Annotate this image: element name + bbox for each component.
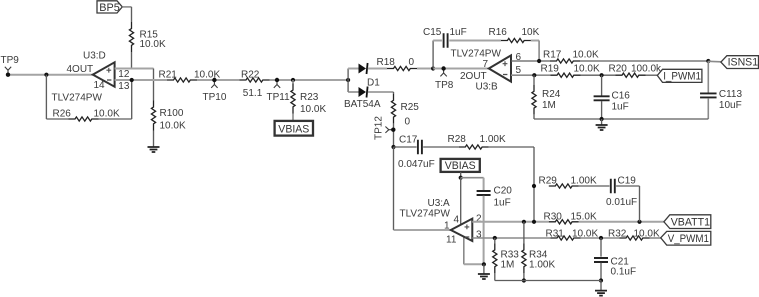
wire bus stub to ground (601, 119, 603, 125)
capacitor C113 10uF (700, 93, 717, 97)
test point TP9 (5, 67, 11, 77)
svg-text:0: 0 (405, 117, 411, 128)
svg-text:VBATT1: VBATT1 (671, 217, 710, 229)
svg-text:100.0k: 100.0k (631, 64, 662, 75)
wire corner down to R25 (393, 92, 395, 94)
svg-text:R17: R17 (543, 49, 562, 60)
svg-text:4OUT: 4OUT (67, 64, 94, 75)
resistor R17 10.0K (550, 59, 580, 63)
wire R34 to bottom bus (523, 273, 525, 280)
svg-text:R22: R22 (241, 70, 260, 81)
wire R24 to ground bus (533, 115, 535, 119)
junction R33 tap (493, 236, 497, 240)
op-amp U3:B (489, 55, 511, 81)
resistor R34 1.00K (522, 243, 526, 273)
wire C15 to R16 (449, 40, 501, 42)
resistor R15 10.0K (129, 22, 133, 52)
svg-text:R30: R30 (544, 211, 563, 222)
wire C16 tap down (601, 75, 603, 95)
wire R17 to ISNS1 (580, 60, 708, 62)
wire BP5 flag to corner (122, 6, 131, 8)
node feedback tap at U3:D output (44, 73, 48, 77)
ground below R100 (148, 147, 160, 152)
wire C21 tap down (600, 238, 602, 257)
junction pin 13 node (130, 78, 134, 82)
wire feedback down (45, 75, 47, 119)
svg-text:R20: R20 (609, 64, 628, 75)
svg-text:R31: R31 (546, 229, 565, 240)
wire R21 to R22 (197, 79, 240, 81)
junction C16 tap (600, 73, 604, 77)
wire R33 tap down (494, 238, 496, 243)
resistor R29 1.00K (549, 184, 579, 188)
junction VBIAS node (459, 176, 463, 180)
wire output to U3:A tip (394, 229, 451, 231)
wire output node up to C15 (432, 41, 434, 69)
resistor R100 10.0K (151, 101, 155, 131)
svg-text:10K: 10K (522, 27, 540, 38)
net flag ISNS1 (721, 56, 759, 69)
wire BP5 corner down to R15 (131, 7, 133, 22)
svg-text:C20: C20 (494, 186, 513, 197)
test point TP8 (440, 66, 446, 76)
wire R18 to U3:B output node (417, 68, 433, 70)
ground below U3:A (478, 274, 490, 279)
wire R20 to I_PWM1 flag (646, 74, 658, 76)
wire pin 12 down to R100 (153, 69, 155, 101)
junction C21 tap (599, 236, 603, 240)
svg-text:C19: C19 (618, 176, 637, 187)
svg-text:10.0K: 10.0K (300, 104, 326, 115)
wire R30 to VBATT1 (579, 221, 664, 223)
svg-text:1.00K: 1.00K (529, 259, 555, 270)
junction R29 tap (532, 184, 536, 188)
capacitor C20 1uF (477, 191, 491, 195)
svg-text:0.01uF: 0.01uF (606, 197, 637, 208)
resistor R31 10.0K (551, 236, 581, 240)
junction pin 5 node (532, 73, 536, 77)
wire D1 anode vertical (347, 69, 349, 93)
svg-text:C16: C16 (612, 91, 631, 102)
svg-text:V_PWM1: V_PWM1 (668, 233, 709, 245)
junction U3:B output node (431, 66, 435, 70)
svg-text:TLV274PW: TLV274PW (400, 209, 451, 220)
svg-text:U3:D: U3:D (83, 51, 106, 62)
wire junction down to R23 (292, 80, 294, 84)
net flag V_PWM1 (661, 231, 711, 245)
resistor R16 10K (501, 38, 531, 42)
wire VBIAS node to pin 4 (460, 178, 462, 225)
wire pin 2 to R30 (472, 221, 549, 223)
junction ISNS1 node (706, 59, 710, 63)
svg-text:2OUT: 2OUT (460, 71, 487, 82)
svg-text:R18: R18 (377, 57, 396, 68)
svg-text:1M: 1M (501, 259, 515, 270)
svg-text:R21: R21 (159, 70, 178, 81)
svg-text:R25: R25 (401, 102, 420, 113)
wire pin 11 down (463, 237, 465, 264)
svg-text:1uF: 1uF (612, 102, 629, 113)
wire C17 to R28 (423, 146, 459, 148)
wire C21 to bottom node (600, 263, 602, 281)
test point TP11 (274, 78, 280, 88)
wire corner down to pin 2 row (639, 186, 641, 222)
op-amp U3:D (93, 62, 115, 86)
svg-text:VBIAS: VBIAS (278, 123, 309, 135)
svg-text:TP8: TP8 (435, 80, 454, 91)
wire pin 3 to R31 (472, 237, 550, 239)
ground below C16 bus (596, 125, 608, 130)
test point TP12 (385, 127, 395, 133)
wire R25 to C17 node (393, 124, 395, 147)
wire bottom diode to corner (368, 91, 394, 93)
wire R19 to R20 (581, 74, 616, 76)
svg-text:TP9: TP9 (1, 55, 20, 66)
svg-text:1uF: 1uF (450, 27, 467, 38)
power symbol VBIAS (below R23) (275, 121, 313, 136)
resistor R30 15.0K (549, 220, 579, 224)
diode D1 top half (359, 63, 368, 74)
junction feedback tap pin 2 (532, 220, 536, 224)
wire R32 to V_PWM1 (650, 237, 661, 239)
svg-text:12: 12 (118, 69, 130, 80)
svg-text:10.0K: 10.0K (194, 70, 220, 81)
junction C19 right tap (637, 220, 641, 224)
svg-text:ISNS1: ISNS1 (728, 57, 759, 69)
wire R28 to corner (489, 146, 534, 148)
svg-text:13: 13 (118, 81, 130, 92)
svg-text:TP11: TP11 (267, 92, 291, 103)
svg-text:U3:A: U3:A (428, 198, 451, 209)
svg-text:10.0K: 10.0K (160, 121, 186, 132)
junction bottom node (599, 278, 603, 282)
junction R23 tap (291, 78, 295, 82)
svg-text:R16: R16 (489, 27, 508, 38)
svg-text:TP10: TP10 (203, 92, 227, 103)
junction D1 anode node (346, 78, 350, 82)
svg-text:R23: R23 (300, 92, 319, 103)
capacitor C21 0.1uF (594, 258, 608, 262)
ground bottom right (595, 291, 607, 296)
resistor R19 10.0K (551, 73, 581, 77)
wire VBIAS node right (461, 177, 484, 179)
svg-text:BAT54A: BAT54A (344, 99, 381, 110)
wire C17 node down to output (393, 147, 395, 230)
resistor R18 0 ohm (387, 66, 417, 70)
wire stub to bottom ground (600, 281, 602, 291)
junction ground bus (600, 117, 604, 121)
svg-text:5: 5 (516, 65, 522, 76)
svg-text:1M: 1M (542, 100, 556, 111)
svg-text:1.00K: 1.00K (571, 176, 597, 187)
svg-text:10.0K: 10.0K (94, 109, 120, 120)
svg-text:0.047uF: 0.047uF (398, 159, 435, 170)
op-amp U3:A (451, 219, 473, 241)
test point TP10 (211, 78, 217, 88)
wire pin 12 right (115, 68, 154, 70)
svg-text:4: 4 (454, 214, 460, 225)
resistor R32 10.0K (620, 236, 650, 240)
wire ground bus (534, 118, 708, 120)
wire C113 to ground bus (707, 98, 709, 119)
svg-text:D1: D1 (367, 78, 380, 89)
junction ground node below U3:A (482, 262, 486, 266)
wire R16 to corner (531, 40, 539, 42)
wire feedback bottom right (99, 118, 132, 120)
capacitor C15 1uF (444, 33, 448, 48)
resistor R23 10.0K (291, 84, 295, 114)
svg-text:10.0K: 10.0K (573, 49, 599, 60)
wire corner down to pin 6 (538, 41, 540, 62)
junction pin 6 node (537, 59, 541, 63)
svg-text:10uF: 10uF (719, 100, 742, 111)
junction C17 node (391, 145, 395, 149)
resistor R26 10.0K feedback (69, 117, 99, 121)
wire top diode to R18 (368, 68, 387, 70)
svg-text:BP5: BP5 (99, 2, 120, 14)
wire pin 5 to R19 (511, 74, 551, 76)
svg-text:0: 0 (409, 57, 415, 68)
svg-text:11: 11 (446, 234, 457, 245)
junction R34 bottom (522, 278, 526, 282)
power flag BP5 (97, 1, 122, 14)
wire R29 to C19 (579, 185, 610, 187)
svg-text:15.0K: 15.0K (571, 211, 597, 222)
wire ISNS1 node down to C113 (707, 61, 709, 93)
svg-text:R29: R29 (539, 176, 558, 187)
wire bottom bus (495, 280, 601, 282)
junction R34 tap (522, 220, 526, 224)
wire node to ISNS1 flag (708, 60, 721, 63)
svg-text:C15: C15 (423, 27, 442, 38)
wire C20 down to ground node (483, 196, 485, 265)
capacitor C19 0.01uF (611, 179, 615, 194)
wire feedback up to pin 13 node (131, 80, 133, 119)
svg-text:10.0K: 10.0K (140, 39, 166, 50)
wire to top diode (348, 68, 358, 70)
capacitor C17 0.047uF (418, 140, 422, 155)
wire down to C20 (483, 178, 485, 191)
wire pin 6 to R17 (511, 60, 550, 62)
svg-text:14: 14 (94, 80, 106, 91)
svg-text:R32: R32 (608, 229, 627, 240)
wire C16 to ground bus (601, 101, 603, 119)
svg-text:0.1uF: 0.1uF (611, 267, 637, 278)
net flag I_PWM1 (657, 69, 702, 82)
svg-text:TLV274PW: TLV274PW (451, 49, 502, 60)
svg-text:R26: R26 (53, 109, 72, 120)
wire feedback bottom left (46, 118, 68, 120)
svg-text:R24: R24 (542, 89, 561, 100)
wire pin 13 to R21 (115, 79, 167, 81)
diode D1 bottom half (359, 87, 368, 98)
resistor R22 51.1 (240, 78, 270, 82)
wire C17 node to left plate (394, 146, 417, 148)
svg-text:C17: C17 (399, 134, 418, 145)
wire R100 to ground (153, 131, 155, 148)
svg-text:R28: R28 (448, 134, 467, 145)
wire C19 to corner (616, 185, 639, 187)
wire output node to U3:B tip (433, 68, 489, 70)
resistor R28 1.00K (459, 145, 489, 149)
wire pin 11 to ground node (464, 263, 484, 265)
resistor R33 1M (493, 243, 497, 273)
svg-text:I_PWM1: I_PWM1 (663, 71, 701, 83)
resistor R21 10.0K (167, 78, 197, 82)
wire bottom diode lead (348, 91, 358, 93)
svg-text:TP12: TP12 (374, 116, 385, 140)
svg-text:U3:B: U3:B (476, 81, 499, 92)
wire TP9 to U3:D output (8, 74, 93, 76)
wire R15 to pin 12 net (131, 52, 133, 69)
svg-text:VBIAS: VBIAS (445, 160, 476, 172)
svg-text:1uF: 1uF (494, 198, 511, 209)
capacitor C16 1uF (594, 96, 610, 100)
wire R23 to VBIAS flag (292, 114, 294, 122)
svg-text:R19: R19 (541, 64, 560, 75)
resistor R20 100.0k (616, 73, 646, 77)
svg-text:1.00K: 1.00K (480, 134, 506, 145)
wire stub to ground (483, 264, 485, 274)
net flag VBATT1 (664, 215, 711, 229)
wire R31 to R32 (581, 237, 620, 239)
svg-text:C113: C113 (719, 89, 743, 100)
svg-text:TLV274PW: TLV274PW (52, 93, 103, 104)
power symbol VBIAS (U3:A supply) (441, 159, 480, 172)
wire to C15 left plate (433, 40, 442, 42)
svg-text:51.1: 51.1 (243, 88, 263, 99)
svg-text:10.0K: 10.0K (574, 64, 600, 75)
wire corner down to pin 2 node (533, 147, 535, 222)
resistor R24 1M (532, 85, 536, 115)
resistor R25 0 ohm (391, 94, 395, 124)
wire R34 tap down (523, 222, 525, 244)
svg-text:R100: R100 (160, 108, 184, 119)
wire R33 to bottom bus (494, 273, 496, 280)
wire R22 to D1 node (270, 79, 349, 81)
wire VBIAS flag stub (460, 172, 462, 178)
wire pin 5 node down to R24 (533, 75, 535, 85)
